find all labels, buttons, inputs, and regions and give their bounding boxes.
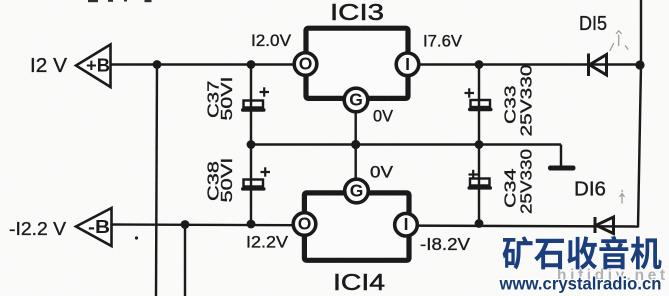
svg-text:www.crystalradio.cn: www.crystalradio.cn — [499, 274, 662, 294]
